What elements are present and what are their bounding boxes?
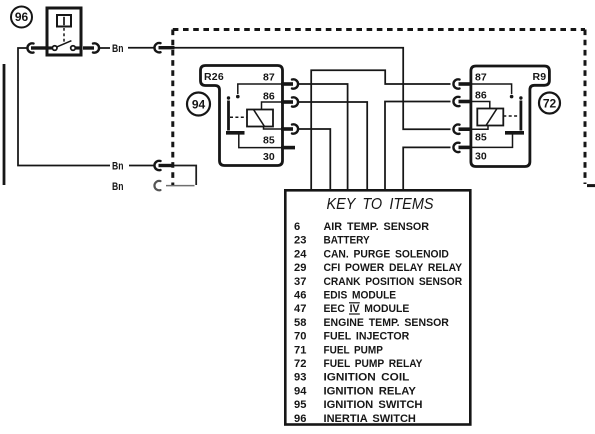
svg-text:23: 23 <box>294 235 306 247</box>
svg-text:37: 37 <box>294 276 306 288</box>
svg-text:94: 94 <box>192 97 206 111</box>
relay 94 pin stub 87 <box>281 82 293 86</box>
svg-text:6: 6 <box>294 221 300 233</box>
relay 72 pin connector 86 <box>453 97 459 106</box>
relay 72 internal: coil to 86 <box>471 102 490 109</box>
inertia switch contacts and blade <box>46 41 82 51</box>
svg-text:R9: R9 <box>533 71 547 83</box>
svg-text:IGNITION RELAY: IGNITION RELAY <box>324 385 417 397</box>
wire to Bn label (top) <box>100 47 111 49</box>
svg-text:30: 30 <box>475 151 487 163</box>
svg-text:85: 85 <box>263 135 275 147</box>
svg-text:72: 72 <box>294 358 306 370</box>
svg-text:24: 24 <box>294 248 307 260</box>
legend row 95 <box>294 399 423 411</box>
svg-text:93: 93 <box>294 372 306 384</box>
svg-text:85: 85 <box>475 132 487 144</box>
svg-text:87: 87 <box>263 72 275 84</box>
svg-text:FUEL PUMP RELAY: FUEL PUMP RELAY <box>324 358 424 370</box>
left margin net line <box>3 64 6 185</box>
wire relay72 pin87 to key box <box>311 70 450 189</box>
relay 94 internal: platform to 30 <box>239 135 281 148</box>
svg-text:ENGINE TEMP. SENSOR: ENGINE TEMP. SENSOR <box>324 317 449 329</box>
svg-text:CFI POWER DELAY RELAY: CFI POWER DELAY RELAY <box>324 262 463 274</box>
relay 72 internal: coil to 85 <box>471 126 488 130</box>
inertia switch reset button <box>57 15 71 27</box>
svg-text:86: 86 <box>263 91 275 103</box>
svg-text:EEC IV MODULE: EEC IV MODULE <box>324 303 410 315</box>
svg-text:95: 95 <box>294 399 306 411</box>
legend row 23 <box>294 235 370 247</box>
connector C-lower at bulkhead <box>154 161 160 170</box>
key to items legend box <box>285 190 470 424</box>
relay 72 pin connector 87 <box>453 79 459 88</box>
node 96 circled label <box>11 7 32 28</box>
connector at inertia right <box>93 43 99 52</box>
relay 94 fixed contact dot <box>236 95 240 99</box>
svg-text:94: 94 <box>294 385 307 397</box>
svg-text:29: 29 <box>294 262 306 274</box>
svg-text:EDIS MODULE: EDIS MODULE <box>324 290 397 302</box>
connector C-return faint <box>154 181 160 190</box>
relay 72 internal: 87 contact feed <box>471 84 512 94</box>
svg-text:IGNITION COIL: IGNITION COIL <box>324 372 410 384</box>
legend row 70 <box>294 331 409 343</box>
inertia switch actuator dashed link <box>63 28 65 44</box>
relay 94 pin connector 85 <box>292 124 298 133</box>
legend row 58 <box>294 317 449 329</box>
svg-text:96: 96 <box>294 413 306 425</box>
relay 72 pin stub 30 <box>459 146 472 150</box>
svg-text:KEY TO ITEMS: KEY TO ITEMS <box>327 196 434 213</box>
svg-text:58: 58 <box>294 317 306 329</box>
relay 72 armature <box>519 96 522 130</box>
wire return to second Bn connector (faded) <box>166 185 195 187</box>
svg-text:96: 96 <box>15 10 29 24</box>
wire loop down from lower Bn connector <box>174 166 197 186</box>
relay 94 pin connector 86 <box>292 97 298 106</box>
svg-text:30: 30 <box>263 151 275 163</box>
dashed harness boundary box <box>173 30 595 186</box>
svg-text:INERTIA SWITCH: INERTIA SWITCH <box>324 413 416 425</box>
relay 72 pin connector 30 <box>453 143 459 152</box>
relay 72 coil link dashed <box>503 115 519 117</box>
svg-text:72: 72 <box>543 96 557 110</box>
relay R9 (fuel pump relay 72) outline <box>471 66 550 167</box>
wire inertia left terminal <box>31 46 46 49</box>
relay 94 armature base platform <box>226 131 245 135</box>
relay 94 pin stub 85 <box>281 127 293 131</box>
svg-text:R26: R26 <box>204 71 224 83</box>
wire relay72 pin86 to key box <box>385 102 451 190</box>
wire inertia right terminal <box>83 46 94 49</box>
legend row 24 <box>294 248 449 260</box>
relay 72 pin stub 85 <box>459 127 472 131</box>
legend row 37 <box>294 276 462 288</box>
wire Bn lower to connector <box>129 165 154 167</box>
wire relay94 pin85 to key box <box>299 129 331 189</box>
wire Bn to connector (top) <box>128 47 154 49</box>
relay 72 pin stub 86 <box>459 100 472 104</box>
svg-text:71: 71 <box>294 344 306 356</box>
wire relay94 pin86 to key box <box>299 102 368 189</box>
legend row 47 <box>294 303 409 315</box>
inertia switch S96 box <box>47 8 81 55</box>
legend row 46 <box>294 290 396 302</box>
svg-text:AIR TEMP. SENSOR: AIR TEMP. SENSOR <box>324 221 430 233</box>
svg-text:Bn: Bn <box>112 43 124 55</box>
relay 94 pin stub 86 <box>281 100 293 104</box>
connector at inertia left <box>27 43 33 52</box>
relay 72 armature base platform <box>505 131 524 135</box>
wire relay94 pin87 to key box <box>299 84 348 189</box>
relay 72 coil <box>477 109 503 126</box>
svg-text:CRANK POSITION SENSOR: CRANK POSITION SENSOR <box>324 276 463 288</box>
svg-text:CAN. PURGE SOLENOID: CAN. PURGE SOLENOID <box>324 248 449 260</box>
wire from connector to relay 72 pin 85 <box>175 48 451 130</box>
legend row 72 <box>294 358 423 370</box>
relay 94 pin stub 30 <box>281 146 295 150</box>
legend row 94 <box>294 385 417 397</box>
relay 72 pin connector 85 <box>453 125 459 134</box>
svg-text:47: 47 <box>294 303 306 315</box>
legend row 93 <box>294 372 410 384</box>
relay R26 (ignition relay 94) outline <box>201 66 283 166</box>
svg-text:BATTERY: BATTERY <box>324 235 371 247</box>
relay 94 coil link dashed <box>230 116 247 118</box>
svg-text:Bn: Bn <box>112 181 124 193</box>
relay 94 internal: coil to 86 <box>262 102 282 110</box>
legend row 6 <box>294 221 429 233</box>
legend row 71 <box>294 344 383 356</box>
node 72 circled label <box>539 93 560 114</box>
wire from inertia left down to Bn <box>18 48 110 166</box>
svg-text:70: 70 <box>294 331 306 343</box>
relay 94 internal: 87 contact feed <box>238 84 281 94</box>
svg-text:Bn: Bn <box>112 161 124 173</box>
node 94 circled label <box>187 93 210 116</box>
legend row 29 <box>294 262 463 274</box>
connector C-top at bulkhead <box>154 43 160 52</box>
legend row 96 <box>294 413 416 425</box>
relay 94 internal: coil to 85 <box>264 127 282 130</box>
svg-text:87: 87 <box>475 72 487 84</box>
relay 94 pin connector 87 <box>292 79 298 88</box>
relay 94 armature <box>227 96 230 130</box>
svg-text:46: 46 <box>294 290 306 302</box>
relay 72 pin stub 87 <box>459 82 472 86</box>
relay 94 coil <box>247 110 273 127</box>
wire relay72 pin30 to key box <box>403 147 450 189</box>
svg-text:FUEL PUMP: FUEL PUMP <box>324 344 383 356</box>
svg-text:FUEL INJECTOR: FUEL INJECTOR <box>324 331 410 343</box>
relay 72 fixed contact dot <box>510 95 514 99</box>
svg-text:86: 86 <box>475 90 487 102</box>
svg-text:IGNITION SWITCH: IGNITION SWITCH <box>324 399 423 411</box>
relay 72 internal: platform to 30 <box>471 135 513 148</box>
